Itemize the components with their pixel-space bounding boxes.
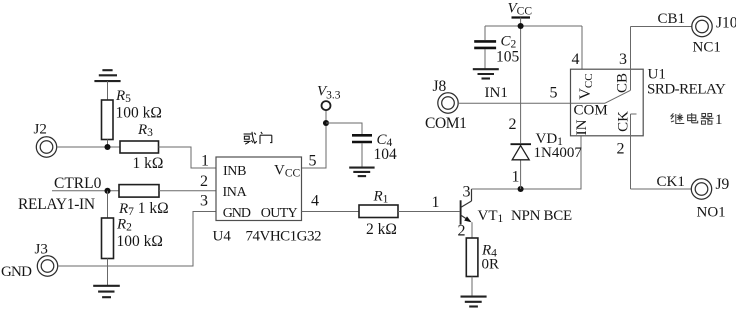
- connector J9: [691, 179, 711, 199]
- wire R4 to ground: [471, 277, 473, 297]
- svg-text:CK1: CK1: [657, 174, 685, 190]
- svg-text:CB: CB: [615, 73, 631, 93]
- ground (below C4): [349, 168, 374, 177]
- svg-text:2: 2: [509, 116, 517, 133]
- wire CTRL0 to R7: [52, 190, 119, 192]
- svg-text:INB: INB: [223, 164, 246, 179]
- svg-text:2: 2: [458, 222, 466, 239]
- svg-text:3: 3: [619, 51, 627, 68]
- svg-text:GND: GND: [1, 264, 32, 280]
- svg-text:INA: INA: [223, 185, 248, 200]
- wire CB1: [631, 26, 692, 28]
- wire CB pin through box: [630, 27, 632, 91]
- resistor R7: [119, 185, 159, 198]
- svg-text:R7 1 kΩ: R7 1 kΩ: [118, 200, 169, 218]
- svg-text:1: 1: [201, 152, 209, 169]
- svg-text:3: 3: [200, 192, 208, 209]
- wire gate pin 4 to R1: [302, 211, 360, 213]
- svg-text:5: 5: [550, 84, 558, 101]
- connector J3: [37, 256, 57, 276]
- svg-text:1: 1: [432, 194, 440, 211]
- svg-text:J3: J3: [35, 242, 48, 258]
- resistor R1: [359, 205, 398, 218]
- wire diode cathode to VCC rail: [520, 26, 522, 143]
- wire CK pin with contact tick: [631, 114, 637, 189]
- svg-text:OUTY: OUTY: [261, 206, 298, 221]
- capacitor C4: [352, 135, 372, 142]
- svg-text:J8: J8: [433, 78, 447, 95]
- wire J3 GND rail to gate pin 3: [58, 212, 216, 267]
- wire VCC rail: [485, 25, 582, 27]
- ground (below C2): [473, 69, 499, 78]
- wire R7 to gate pin 2: [159, 190, 216, 192]
- svg-text:U4: U4: [213, 228, 232, 244]
- node B junction: [104, 188, 110, 194]
- wire V3.3 node to C4: [326, 123, 362, 134]
- wire diode anode: [520, 160, 522, 190]
- svg-text:SRD-RELAY: SRD-RELAY: [647, 82, 726, 98]
- svg-text:5: 5: [309, 152, 317, 169]
- power V3.3 terminal circle: [322, 101, 331, 110]
- wire J2 to node A: [57, 146, 120, 148]
- connector J10: [692, 16, 712, 36]
- node A junction: [104, 144, 110, 150]
- wire VCC rail to C2: [484, 26, 486, 40]
- wire C2 to ground: [484, 49, 486, 69]
- svg-text:2: 2: [200, 173, 208, 190]
- svg-text:100 kΩ: 100 kΩ: [116, 105, 162, 122]
- svg-text:NC1: NC1: [693, 40, 721, 56]
- svg-text:CK: CK: [616, 111, 632, 132]
- svg-text:NPN BCE: NPN BCE: [511, 208, 572, 224]
- svg-text:J9: J9: [716, 176, 730, 193]
- svg-text:J2: J2: [34, 122, 47, 138]
- svg-text:1N4007: 1N4007: [534, 145, 583, 161]
- svg-text:NO1: NO1: [697, 205, 726, 221]
- svg-text:1: 1: [715, 112, 723, 128]
- wire J8 to relay COM: [458, 102, 570, 104]
- diode VD1: [511, 144, 532, 160]
- wire R2 to ground: [107, 259, 109, 286]
- svg-text:RELAY1-IN: RELAY1-IN: [18, 196, 95, 213]
- resistor R2: [102, 218, 114, 259]
- svg-text:105: 105: [496, 48, 520, 65]
- svg-text:GND: GND: [223, 206, 251, 221]
- wire C4 to ground: [361, 143, 363, 167]
- wire R3 to gate pin 1: [159, 147, 217, 168]
- svg-text:CTRL0: CTRL0: [54, 175, 102, 192]
- resistor R4: [466, 238, 478, 277]
- svg-text:74VHC1G32: 74VHC1G32: [246, 228, 322, 244]
- svg-text:IN: IN: [574, 119, 590, 135]
- resistor R3: [120, 141, 159, 153]
- ground (inverted, above R5): [94, 70, 120, 81]
- svg-text:IN1: IN1: [485, 85, 508, 101]
- node V3.3 junction: [323, 120, 329, 126]
- wire CK1: [631, 188, 692, 190]
- capacitor C2: [474, 41, 496, 48]
- svg-text:3: 3: [463, 184, 471, 201]
- svg-text:COM1: COM1: [425, 115, 466, 132]
- label 或门: [244, 132, 272, 144]
- svg-text:4: 4: [572, 51, 580, 68]
- svg-text:4: 4: [311, 192, 319, 209]
- op-amp U4 74VHC1G32 OR-gate box: [216, 157, 302, 221]
- transistor VT1: [461, 189, 472, 225]
- ground (below R2): [93, 286, 120, 297]
- wire VCC rail to relay pin 4: [581, 26, 583, 69]
- svg-text:CB1: CB1: [658, 11, 686, 27]
- wire R5 to node A: [107, 140, 109, 148]
- label 继电器1: [671, 113, 714, 124]
- svg-text:1 kΩ: 1 kΩ: [133, 155, 164, 172]
- wire node B to R2: [107, 191, 109, 218]
- wire R1 to VT1 base: [398, 211, 460, 213]
- svg-text:U1: U1: [648, 67, 666, 83]
- power VCC symbol: [512, 18, 531, 27]
- svg-text:2 kΩ: 2 kΩ: [366, 221, 397, 238]
- svg-text:2: 2: [617, 140, 625, 157]
- resistor R5: [102, 100, 114, 140]
- connector J8: [438, 93, 458, 113]
- svg-text:100 kΩ: 100 kΩ: [117, 233, 163, 250]
- connector J2: [36, 137, 56, 157]
- wire gate pin 5 to V3.3: [302, 110, 326, 168]
- node C junction (diode anode): [518, 186, 524, 192]
- relay switch COM arm: [571, 90, 631, 103]
- svg-text:COM: COM: [574, 103, 608, 119]
- svg-text:J10: J10: [716, 14, 736, 31]
- ground (below R4): [461, 297, 487, 307]
- svg-text:104: 104: [374, 146, 398, 163]
- wire VT1 emitter to R4: [471, 222, 473, 238]
- svg-text:1: 1: [512, 168, 520, 185]
- svg-text:0R: 0R: [482, 257, 500, 273]
- wire ground to R5: [107, 81, 109, 100]
- wire VT1 collector rail to relay IN: [472, 136, 582, 189]
- node D junction (VCC rail): [518, 23, 524, 29]
- relay U1 box: [571, 69, 644, 136]
